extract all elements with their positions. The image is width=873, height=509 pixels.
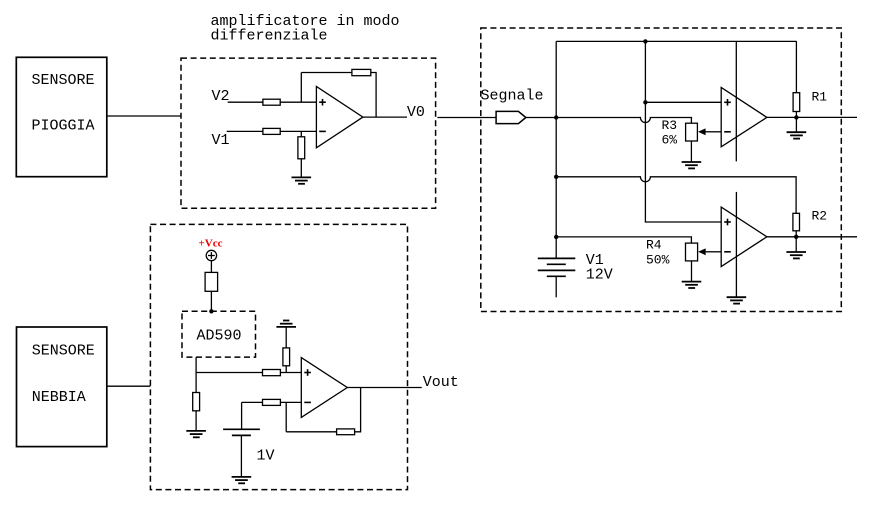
wire main bus vertical bbox=[555, 41, 557, 258]
svg-text:AD590: AD590 bbox=[197, 328, 242, 345]
wire plus input top op-amp bbox=[645, 101, 721, 103]
op-amp U1 bbox=[316, 86, 363, 147]
wire segnale to R3 with hop bbox=[556, 118, 691, 124]
wire U2 power pin bbox=[735, 41, 737, 161]
junction dot line2-bus bbox=[554, 175, 558, 179]
svg-text:R2: R2 bbox=[812, 209, 828, 224]
svg-text:SENSORE: SENSORE bbox=[32, 343, 95, 360]
wire resistor to op-amp minus bbox=[280, 401, 301, 403]
wire R2 to output bbox=[795, 231, 797, 237]
svg-text:Segnale: Segnale bbox=[481, 87, 544, 104]
wire AD590 to plus input bbox=[196, 357, 262, 372]
potentiometer R4 bbox=[686, 243, 698, 261]
wire minus to battery bbox=[241, 402, 243, 429]
junction dot plus input tap bbox=[643, 100, 647, 104]
junction dot line3-bus bbox=[554, 235, 558, 239]
wire feedback down bbox=[285, 402, 287, 431]
svg-text:6%: 6% bbox=[662, 133, 678, 148]
resistor to ground AD590 bbox=[193, 393, 200, 411]
wire battery bottom stem bbox=[555, 276, 557, 297]
svg-text:Vout: Vout bbox=[423, 374, 459, 391]
wire battery to ground bbox=[240, 435, 242, 477]
dashed box amplificatore bbox=[181, 58, 436, 208]
wire U3 power pin bbox=[735, 192, 737, 297]
wiper arrow R3 to minus input bbox=[698, 128, 721, 135]
wire V0 to comparator box bbox=[437, 117, 496, 119]
resistor pull to ground plus input bbox=[283, 348, 290, 366]
resistor bias AD590 bbox=[205, 272, 218, 291]
op-amp U4 bbox=[301, 358, 347, 418]
wire resistor to ground bbox=[195, 411, 197, 431]
resistor V1 input bbox=[263, 128, 280, 134]
wire V2 input bbox=[228, 101, 263, 103]
potentiometer R3 bbox=[686, 123, 698, 141]
wire feedback bottom right bbox=[355, 388, 361, 432]
dashed box temperature circuit bbox=[150, 224, 407, 489]
wire feedback bottom left bbox=[286, 431, 336, 433]
wire ground resistor tap bbox=[300, 131, 302, 136]
resistor R1 bbox=[793, 93, 800, 112]
wire Segnale tag to bus bbox=[526, 117, 556, 119]
wire top rail bbox=[556, 40, 797, 42]
label amplificatore in modo differenziale bbox=[211, 13, 400, 45]
wire inverted ground to resistor bbox=[285, 327, 287, 348]
svg-text:PIOGGIA: PIOGGIA bbox=[32, 118, 95, 135]
block SENSORE NEBBIA bbox=[17, 327, 107, 447]
svg-text:50%: 50% bbox=[646, 253, 670, 268]
resistor plus input bbox=[263, 370, 281, 376]
wire rail to R1 bbox=[795, 41, 797, 92]
ground under AD590 branch bbox=[186, 431, 206, 437]
dashed box comparators bbox=[481, 28, 842, 312]
wire resistor to plus line bbox=[285, 366, 287, 373]
wire Vcc to resistor bbox=[210, 261, 212, 273]
ground under R2 bbox=[786, 252, 806, 258]
resistor V2 input bbox=[263, 99, 280, 105]
ground under U1 bbox=[292, 177, 312, 183]
wire feedback top left bbox=[301, 72, 352, 74]
wire R3 to ground bbox=[690, 141, 692, 162]
op-amp comparator bottom U3 bbox=[721, 207, 767, 266]
resistor R2 bbox=[793, 213, 800, 231]
svg-text:V0: V0 bbox=[407, 104, 425, 121]
svg-text:V2: V2 bbox=[212, 88, 230, 105]
ground under R4 bbox=[682, 282, 702, 288]
wire V2 resistor to op-amp bbox=[280, 101, 316, 103]
wire line3 bus to R4 bbox=[556, 237, 691, 243]
wire V1 resistor to op-amp bbox=[280, 130, 316, 132]
wire down to ground resistor bbox=[195, 373, 197, 393]
wire plus-bus vertical with bend to lower op-amp bbox=[645, 41, 721, 222]
wire resistor to ground bbox=[300, 159, 302, 178]
svg-text:R1: R1 bbox=[812, 89, 828, 104]
wire R1 ground stem bbox=[795, 117, 797, 132]
ground under 1V battery bbox=[232, 477, 252, 483]
ground under R1 bbox=[787, 132, 807, 138]
wire U2 output bbox=[767, 116, 857, 118]
resistor feedback op-amp U1 bbox=[352, 69, 371, 75]
svg-text:SENSORE: SENSORE bbox=[32, 72, 95, 89]
svg-text:1V: 1V bbox=[257, 448, 275, 465]
svg-text:R4: R4 bbox=[646, 238, 662, 253]
block SENSORE PIOGGIA bbox=[16, 57, 107, 176]
wire feedback top right bbox=[371, 73, 376, 118]
ground under U3 bbox=[727, 297, 747, 303]
wire U4 output bbox=[347, 387, 421, 389]
junction dot R2 output bbox=[794, 235, 798, 239]
wire resistor to AD590 bbox=[210, 291, 212, 311]
junction dot rail-bus bbox=[643, 39, 647, 43]
svg-text:12V: 12V bbox=[586, 267, 613, 284]
wire sensore pioggia to amplifier box bbox=[107, 115, 181, 117]
wire resistor to op-amp plus bbox=[280, 372, 301, 374]
junction dot R1 output bbox=[794, 115, 798, 119]
wire U3 output bbox=[767, 236, 857, 238]
junction dot segnale-bus bbox=[554, 115, 558, 119]
battery 1V bbox=[223, 429, 260, 435]
svg-text:NEBBIA: NEBBIA bbox=[32, 389, 86, 406]
wire line2 bus to R2 with hop bbox=[556, 177, 796, 214]
wire R2 ground stem bbox=[795, 237, 797, 252]
svg-text:+Vcc: +Vcc bbox=[199, 238, 223, 250]
wire sensore nebbia to box bbox=[107, 385, 151, 387]
wire R4 to ground bbox=[691, 261, 693, 282]
ground inverted top bbox=[276, 321, 296, 327]
ground under R3 bbox=[682, 162, 702, 168]
svg-text:V1: V1 bbox=[212, 132, 230, 149]
resistor minus input bbox=[263, 399, 281, 405]
svg-text:differenziale: differenziale bbox=[211, 27, 328, 44]
wire minus input bbox=[242, 401, 263, 403]
wire U1 output bbox=[363, 116, 407, 118]
resistor feedback U4 bbox=[337, 429, 355, 435]
wire R1 to output bbox=[795, 112, 797, 118]
junction dot AD590 top bbox=[209, 309, 213, 313]
resistor to ground op-amp U1 bbox=[298, 137, 305, 159]
wiper arrow R4 to minus input bbox=[698, 248, 721, 255]
power terminal circle bbox=[206, 250, 216, 260]
battery V1 12V bbox=[538, 258, 576, 276]
block AD590 dashed bbox=[182, 311, 256, 357]
op-amp comparator top U2 bbox=[721, 87, 767, 146]
wire feedback tap up bbox=[300, 73, 302, 103]
svg-text:R3: R3 bbox=[662, 118, 678, 133]
wire V1 input bbox=[227, 130, 263, 132]
net tag Segnale pentagon bbox=[496, 111, 526, 123]
